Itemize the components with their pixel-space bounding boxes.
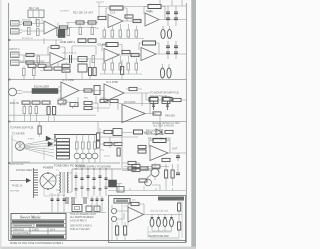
wire row5 right rail bbox=[122, 128, 138, 168]
wire fan-out bbox=[25, 139, 55, 157]
svg-text:TO PWR SUP PCB: TO PWR SUP PCB bbox=[10, 126, 33, 130]
svg-text:C61 C62 C63 C64: C61 C62 C63 C64 bbox=[150, 211, 169, 213]
resistor R74 bbox=[38, 64, 46, 67]
resistor R24 feedback bbox=[143, 41, 156, 45]
resistor R13 bbox=[103, 30, 106, 37]
resistor R43 bbox=[84, 101, 92, 104]
resistor R8 bbox=[91, 28, 94, 35]
capacitor C46 electrolytic bbox=[157, 215, 161, 227]
frame bottom border bbox=[9, 240, 187, 242]
resistor R63 bbox=[162, 158, 170, 161]
resistor R12 feedback bbox=[148, 5, 161, 9]
svg-text:INPUT 2: INPUT 2 bbox=[10, 47, 20, 51]
capacitor C17 bbox=[174, 46, 178, 48]
capacitor C20 bbox=[54, 67, 62, 70]
op-amp U2 bbox=[108, 15, 123, 28]
title row dark 1 bbox=[12, 220, 64, 223]
scanner gray left column bbox=[0, 0, 1, 249]
resistor R53 bbox=[94, 142, 97, 149]
resistor R72 bbox=[88, 39, 96, 43]
capacitor C59 bbox=[105, 187, 108, 189]
svg-text:TO KEYER: TO KEYER bbox=[12, 133, 25, 136]
wire harness verticals bbox=[12, 139, 44, 160]
op-amp U11 bbox=[128, 207, 144, 222]
resistor R75 bbox=[62, 64, 70, 67]
connector J1 bbox=[11, 21, 23, 27]
capacitor C15 bbox=[166, 46, 170, 48]
resistor R76 bbox=[132, 164, 140, 167]
resistor R45 bbox=[100, 99, 108, 102]
node dots bbox=[54, 136, 56, 146]
node bus V+ bbox=[168, 6, 176, 26]
wire row3 upper stubs2 bbox=[40, 62, 70, 71]
capacitor C11 electrolytic bbox=[167, 26, 171, 39]
svg-text:UNLESS NOTED ALL RES: UNLESS NOTED ALL RES bbox=[152, 122, 180, 125]
resistor R46 bbox=[153, 112, 161, 115]
svg-text:CHKD: CHKD bbox=[32, 228, 39, 231]
resistor R15 bbox=[119, 30, 122, 37]
module A6 bbox=[86, 206, 92, 212]
op-amp U4 bbox=[50, 53, 65, 66]
resistor R11 bbox=[133, 19, 141, 22]
op-amp U3 bbox=[145, 13, 159, 26]
wire input bus bbox=[22, 18, 44, 32]
AC plug arrow bbox=[10, 178, 31, 183]
resistor R60 bbox=[140, 167, 148, 170]
svg-text:Sweet Music: Sweet Music bbox=[20, 215, 41, 220]
svg-text:C8 .22 R21 5K: C8 .22 R21 5K bbox=[62, 53, 77, 55]
resistor R48 bbox=[134, 130, 143, 134]
wire strip stubs bbox=[32, 62, 82, 80]
svg-text:R31 R32 C21 C22 R35: R31 R32 C21 C22 R35 bbox=[20, 61, 45, 64]
svg-text:C40 C41 C42: C40 C41 C42 bbox=[52, 195, 66, 197]
wire U3 feedback bbox=[144, 7, 165, 21]
wire row5 midleft bbox=[100, 128, 114, 163]
wire bus row4 bbox=[9, 121, 186, 123]
capacitor C21 electrolytic bbox=[160, 64, 164, 78]
resistor R16 bbox=[127, 30, 130, 37]
resistor R27 bbox=[119, 63, 122, 70]
svg-text:LEVEL: LEVEL bbox=[58, 98, 66, 100]
diode D3 bbox=[75, 172, 78, 196]
potentiometer VR3 bbox=[58, 100, 66, 106]
op-amp U9 bbox=[122, 105, 145, 123]
wire r81 bbox=[126, 88, 142, 90]
resistor R17 bbox=[135, 30, 138, 37]
resistor R21 bbox=[92, 56, 95, 63]
module A1 bbox=[150, 97, 158, 104]
connector P2 bbox=[16, 142, 25, 151]
frame left border bbox=[8, 3, 10, 241]
resistor R6 bbox=[67, 29, 70, 36]
wire reg out bbox=[112, 169, 122, 192]
resistor R78 bbox=[139, 179, 147, 182]
node dots bus bbox=[75, 168, 106, 169]
wire U7 out bbox=[79, 90, 104, 92]
capacitor C16 bbox=[166, 52, 170, 54]
svg-text:FOR ALT VALUES: FOR ALT VALUES bbox=[70, 228, 90, 231]
connector jack J5 bbox=[111, 208, 116, 213]
resistor R71 bbox=[78, 39, 86, 43]
wire row5 left rail bbox=[12, 135, 30, 162]
capacitor C58 bbox=[99, 189, 102, 191]
wire P1 to delay bbox=[22, 91, 32, 93]
wire row4 left stubs bbox=[14, 99, 54, 122]
resistor R44 bbox=[84, 106, 92, 109]
capacitor C30 bbox=[81, 169, 84, 196]
capacitor C2 bbox=[60, 26, 68, 29]
resistor R33 bbox=[93, 68, 96, 76]
capacitor C41 bbox=[84, 197, 86, 204]
terminal strip TB1 bbox=[34, 168, 39, 198]
capacitor C14 bbox=[122, 50, 130, 53]
svg-text:OUT: OUT bbox=[172, 148, 178, 151]
module A8 bbox=[78, 64, 87, 72]
resistor R23 bbox=[131, 53, 139, 56]
wire row5 right bottom bbox=[122, 163, 169, 167]
op-amp U6 bbox=[141, 48, 156, 61]
resistor R30 bbox=[23, 69, 26, 76]
transformer T1 bbox=[60, 172, 69, 193]
resistor R58 bbox=[152, 165, 160, 168]
wire drop lines bbox=[40, 193, 106, 213]
op-amp U5 bbox=[104, 49, 119, 62]
op-amp U8 bbox=[104, 84, 124, 102]
resistor R62 bbox=[171, 170, 174, 178]
wire U10 out bbox=[168, 153, 186, 161]
resistor R67 bbox=[178, 203, 181, 211]
capacitor C42 bbox=[91, 199, 94, 201]
capacitor C24 bbox=[47, 107, 50, 115]
resistor R22 feedback bbox=[106, 43, 118, 47]
transistor Q2 bbox=[74, 153, 80, 159]
wire U11 feedback bbox=[128, 204, 144, 215]
capacitor C54 bbox=[75, 189, 78, 191]
svg-text:RLY 1A: RLY 1A bbox=[29, 6, 39, 10]
resistor R51 bbox=[82, 142, 85, 149]
capacitor C39 bbox=[66, 197, 68, 204]
connector J4 bbox=[11, 60, 20, 66]
wire top right entry bbox=[98, 0, 186, 7]
resistor R57 bbox=[128, 161, 136, 164]
node bus row2 bbox=[168, 41, 176, 59]
svg-text:LINE AMP 2: LINE AMP 2 bbox=[60, 40, 76, 44]
svg-text:R44 220 R45 220: R44 220 R45 220 bbox=[150, 96, 168, 98]
resistor R18 bbox=[26, 53, 34, 56]
frame right border bbox=[185, 3, 187, 243]
connector jack J6 bbox=[111, 216, 116, 221]
resistor R70 bbox=[163, 98, 172, 102]
resistor R28 bbox=[127, 63, 130, 70]
svg-text:R12 10K C4 .047: R12 10K C4 .047 bbox=[73, 11, 93, 15]
capacitor C9 bbox=[174, 18, 178, 20]
resistor R59 bbox=[128, 167, 136, 170]
capacitor C8 bbox=[174, 12, 178, 14]
svg-text:117VAC 60Hz: 117VAC 60Hz bbox=[16, 168, 33, 172]
svg-text:DWN RLS: DWN RLS bbox=[13, 228, 24, 231]
wire top left drops bbox=[30, 18, 42, 24]
module A4 bbox=[117, 187, 124, 193]
wire U4 out bbox=[19, 55, 104, 63]
wire U11 out bbox=[144, 214, 183, 216]
wire U5 feedback bbox=[102, 45, 122, 56]
capacitor C5 bbox=[125, 15, 133, 18]
resistor R32 bbox=[89, 68, 92, 76]
wire xfmr links bbox=[48, 173, 72, 192]
svg-text:IC-4 4558: IC-4 4558 bbox=[106, 80, 118, 84]
resistor R73 bbox=[28, 64, 36, 67]
svg-text:8 KEY: 8 KEY bbox=[28, 139, 35, 141]
capacitor C25 bbox=[53, 107, 56, 115]
wire row4 lower bbox=[98, 115, 160, 133]
resistor R14 bbox=[111, 30, 114, 37]
resistor R35 bbox=[84, 89, 92, 92]
transistor Q5 bbox=[92, 153, 98, 159]
resistor R9 feedback bbox=[110, 6, 123, 10]
potentiometer VR2 bbox=[78, 57, 87, 62]
wire matrix bus bbox=[54, 135, 96, 142]
capacitor C47 electrolytic bbox=[163, 215, 167, 227]
capacitor C52 bbox=[38, 126, 41, 134]
resistor R26 bbox=[111, 63, 114, 70]
capacitor C36 bbox=[51, 199, 54, 201]
wire U5 out bbox=[119, 54, 141, 56]
op-amp U7 bbox=[61, 82, 79, 99]
transistor Q6 bbox=[147, 169, 159, 179]
capacitor C1 bbox=[37, 20, 40, 27]
box frame bbox=[109, 196, 186, 243]
bridge rectifier BR1 bbox=[40, 172, 56, 190]
capacitor C12 bbox=[37, 56, 40, 63]
scanner gray band bottom bbox=[0, 247, 196, 249]
connector J3 bbox=[11, 52, 20, 58]
resistor R1 bbox=[24, 22, 32, 25]
wire U1 output bbox=[57, 27, 72, 29]
resistor R68 bbox=[178, 222, 181, 230]
resistor R47 bbox=[104, 130, 112, 133]
wire box interior rails bbox=[112, 200, 182, 241]
wire row6 bottom drops bbox=[44, 189, 88, 199]
wire rail row4 upper bbox=[9, 114, 96, 116]
resistor R55 bbox=[138, 150, 146, 153]
resistor R42 bbox=[35, 107, 38, 114]
capacitor C51 bbox=[62, 69, 70, 72]
wire U10 feedback bbox=[149, 141, 170, 154]
diode D1 bbox=[46, 136, 51, 141]
page background bbox=[0, 0, 196, 249]
resistor R79 bbox=[104, 142, 112, 145]
wire U3 out bbox=[159, 19, 186, 21]
resistor R25 bbox=[103, 63, 106, 70]
module A3 bbox=[113, 129, 122, 136]
capacitor C34 bbox=[105, 169, 108, 196]
capacitor C50 bbox=[166, 101, 169, 110]
title row model bbox=[13, 224, 64, 227]
module A2 bbox=[162, 97, 170, 104]
module A5 bbox=[72, 205, 82, 212]
capacitor C38 bbox=[63, 199, 66, 201]
capacitor C48 electrolytic bbox=[170, 215, 174, 227]
wire box inner rails2 bbox=[122, 200, 172, 239]
capacitor C7 bbox=[166, 18, 170, 20]
svg-text:MODE OF OWL TONE SYNTHESIZER S: MODE OF OWL TONE SYNTHESIZER SCHEM 2 bbox=[10, 242, 64, 245]
svg-text:C26 .1: C26 .1 bbox=[100, 98, 107, 100]
wire row6 right bbox=[122, 163, 155, 171]
resistor R5 bbox=[57, 29, 60, 36]
capacitor plus marks bbox=[151, 217, 173, 219]
resistor R36 bbox=[173, 98, 181, 101]
switch bank S1 bbox=[57, 139, 70, 160]
capacitor C18 bbox=[174, 52, 178, 54]
resistor R3 bbox=[37, 29, 40, 36]
capacitor C22 electrolytic bbox=[167, 64, 171, 78]
svg-text:R48 600: R48 600 bbox=[165, 114, 175, 118]
wire row2 lower stubs bbox=[104, 56, 136, 74]
potentiometer VR1 bbox=[58, 30, 65, 38]
wire supply top bus bbox=[72, 169, 160, 192]
wire U2 feedback bbox=[106, 8, 127, 21]
capacitor C28 bbox=[97, 140, 100, 148]
wire row6 right stubs bbox=[152, 164, 178, 190]
transistor Q7 bbox=[145, 179, 152, 186]
resistor R69 bbox=[149, 98, 158, 102]
resistor R40 bbox=[23, 107, 26, 114]
resistor R31 bbox=[33, 69, 36, 76]
svg-text:C20 47: C20 47 bbox=[64, 72, 72, 74]
resistor R80 bbox=[114, 142, 122, 145]
svg-text:SW PWR: SW PWR bbox=[10, 191, 20, 193]
title row dark bottom bbox=[12, 235, 64, 238]
svg-text:IC2 4558: IC2 4558 bbox=[97, 43, 108, 47]
capacitor C44 bbox=[101, 199, 104, 201]
wire row2 top bus bbox=[9, 38, 62, 46]
resistor R29 bbox=[135, 63, 138, 70]
resistor R65 bbox=[116, 222, 119, 240]
wire DL1 out bbox=[58, 87, 61, 91]
wire box right bbox=[150, 199, 179, 238]
wire row1 lower rail bbox=[100, 37, 144, 39]
node nubs on left border bbox=[8, 39, 10, 164]
wire row3 right links bbox=[146, 93, 186, 100]
wire row2 mid vertical bbox=[72, 46, 96, 55]
resistor R50 bbox=[76, 142, 79, 149]
delay line DL1 bbox=[32, 89, 58, 94]
svg-text:IC1B: IC1B bbox=[146, 11, 152, 13]
svg-text:K1 SPDT: K1 SPDT bbox=[60, 11, 70, 13]
wire U6 out bbox=[156, 53, 186, 55]
connector J2 bbox=[11, 29, 23, 35]
wire row2 lower rail bbox=[100, 73, 142, 75]
svg-text:HEADPHONE AMP: HEADPHONE AMP bbox=[148, 235, 169, 238]
resistor R19 bbox=[26, 61, 34, 64]
svg-text:R2 10K C2: R2 10K C2 bbox=[22, 38, 33, 40]
capacitor C6 bbox=[166, 12, 170, 14]
wire row1 verticals bbox=[58, 23, 92, 29]
capacitor C13 bbox=[70, 55, 72, 63]
svg-text:POWER SUPPLY PC BOARD: POWER SUPPLY PC BOARD bbox=[76, 165, 111, 169]
wire U4 feedback bbox=[48, 47, 65, 59]
title block frame bbox=[11, 214, 66, 240]
resistor R64 feedback bbox=[131, 202, 139, 205]
wire row3 stubs bbox=[24, 60, 122, 80]
resistor R20 feedback bbox=[51, 45, 59, 48]
capacitor C33 bbox=[99, 169, 102, 196]
svg-text:10K: 10K bbox=[95, 28, 99, 30]
label box title right bbox=[158, 197, 184, 201]
potentiometer VR4 bbox=[70, 103, 78, 109]
resistor R41 bbox=[29, 107, 32, 114]
wire U2 out bbox=[123, 20, 141, 22]
op-amp U10 bbox=[150, 146, 168, 161]
capacitor C26 bbox=[110, 99, 118, 102]
resistor R61 bbox=[165, 170, 168, 178]
wire row1 lower stubs bbox=[104, 24, 136, 30]
capacitor C35 bbox=[176, 173, 180, 175]
svg-text:TO MONITOR AMP PCB: TO MONITOR AMP PCB bbox=[150, 91, 179, 95]
scanner gray band right bbox=[191, 0, 196, 249]
resistor R49 bbox=[165, 130, 173, 133]
svg-text:A NO 34 REV C: A NO 34 REV C bbox=[70, 219, 87, 222]
capacitor C49 bbox=[152, 101, 155, 110]
transistor Q4 bbox=[86, 153, 92, 159]
resistor R39 bbox=[42, 101, 50, 104]
svg-text:EQUALIZER: EQUALIZER bbox=[34, 85, 49, 89]
wire U6 feedback bbox=[139, 43, 159, 54]
wire rail y190 bbox=[108, 186, 186, 191]
op-amp U1 bbox=[44, 21, 57, 34]
connector P1 bbox=[9, 88, 23, 96]
transistor Q3 bbox=[80, 153, 86, 159]
wire row5 to right bbox=[100, 137, 122, 148]
capacitor C10 electrolytic bbox=[161, 26, 165, 39]
svg-text:POWER: POWER bbox=[43, 166, 53, 170]
resistor R4 bbox=[88, 21, 96, 24]
regulator VR5 bbox=[109, 180, 117, 187]
capacitor C43 bbox=[96, 199, 99, 201]
capacitor C27 bbox=[97, 133, 100, 141]
svg-text:IC-3 4558: IC-3 4558 bbox=[62, 78, 74, 82]
wire row2 input bbox=[23, 55, 25, 63]
resistor R7 bbox=[79, 28, 82, 35]
resistor R77 bbox=[132, 168, 140, 171]
wire vertical x99 top bbox=[96, 2, 104, 18]
wire U9 feedback bbox=[118, 104, 156, 114]
capacitor C23 bbox=[94, 86, 100, 95]
capacitor C56 bbox=[87, 189, 90, 191]
resistor R54 bbox=[138, 145, 146, 148]
svg-text:R1 600: R1 600 bbox=[22, 20, 30, 22]
svg-text:10-4: 10-4 bbox=[50, 228, 55, 231]
relay K1 bbox=[28, 10, 44, 18]
capacitor C37 bbox=[57, 199, 60, 201]
resistor R37 bbox=[22, 101, 30, 104]
transistor Q1 bbox=[156, 129, 162, 135]
wire U7 U8 grounds bbox=[64, 96, 110, 106]
label box title bbox=[114, 199, 130, 204]
capacitor C31 bbox=[87, 169, 90, 196]
capacitor C45 electrolytic bbox=[150, 215, 154, 227]
resistor R56 feedback bbox=[153, 139, 166, 143]
resistor R38 bbox=[32, 101, 40, 104]
resistor R10 bbox=[98, 16, 106, 19]
wire row4 mid bbox=[66, 102, 110, 112]
wire long bus bbox=[9, 79, 186, 81]
resistor R34 bbox=[121, 67, 124, 75]
module A7 bbox=[94, 206, 100, 212]
wire mid bus bbox=[66, 23, 98, 28]
wire c52 bbox=[39, 122, 41, 138]
svg-text:ALL CAPS MFD: ALL CAPS MFD bbox=[146, 133, 164, 136]
